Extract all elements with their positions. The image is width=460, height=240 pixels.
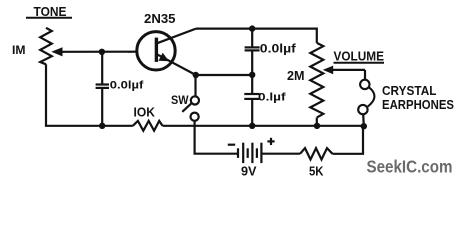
wire pot bottom to rail bbox=[46, 64, 133, 126]
wire C2 bottom lead bbox=[251, 99, 253, 126]
wire battery to 5K bbox=[261, 153, 300, 155]
svg-text:IM: IM bbox=[12, 45, 26, 57]
wire emitter to switch bbox=[194, 75, 196, 97]
wiper arrow R1 bbox=[51, 47, 137, 56]
switch SW top contact bbox=[191, 96, 199, 104]
transistor Q1 emitter lead bbox=[157, 53, 196, 75]
svg-text:0.lµf: 0.lµf bbox=[258, 91, 286, 103]
wiper arrow R3 bbox=[323, 66, 365, 75]
transistor Q1 collector lead bbox=[157, 29, 196, 44]
battery B1 9V minus sign bbox=[228, 144, 235, 146]
node rail C2 junction bbox=[249, 123, 255, 129]
wire emitter row bbox=[196, 74, 252, 76]
wire 2M bottom lead bbox=[316, 118, 318, 126]
capacitor C3 0.01uf bbox=[245, 47, 260, 50]
wire switch to battery bbox=[195, 121, 238, 154]
wire C3 bottom lead bbox=[251, 50, 253, 74]
svg-text:2N35: 2N35 bbox=[144, 12, 176, 26]
label TONE bbox=[26, 5, 72, 19]
transistor Q1 2N35 circle bbox=[137, 32, 175, 70]
wire earphone bottom lead bbox=[362, 114, 365, 126]
node rail C1 junction bbox=[99, 123, 105, 129]
wire C1 top lead bbox=[101, 52, 103, 84]
wire bottom rail bbox=[163, 125, 365, 127]
wire 5K to rail bbox=[333, 126, 364, 154]
capacitor C2 0.1uf bbox=[244, 94, 259, 99]
transistor Q1 base bar bbox=[155, 38, 158, 62]
node base junction bbox=[99, 49, 105, 55]
svg-text:EARPHONES: EARPHONES bbox=[382, 98, 454, 112]
wire C2 top lead bbox=[251, 75, 253, 93]
svg-text:2M: 2M bbox=[287, 68, 305, 83]
wire C1 bottom lead bbox=[101, 88, 103, 126]
earphone bottom terminal bbox=[358, 105, 367, 114]
potentiometer R1 1M (TONE) bbox=[40, 28, 52, 65]
svg-text:VOLUME: VOLUME bbox=[334, 50, 385, 64]
node top rail junction bbox=[249, 25, 255, 31]
node C3-C2 junction bbox=[249, 72, 255, 78]
node emitter junction bbox=[193, 72, 199, 78]
earphone top terminal bbox=[360, 80, 369, 89]
node rail 2M junction bbox=[314, 123, 320, 129]
wire wiper to earphone bbox=[364, 70, 366, 80]
svg-text:SeekIC.com: SeekIC.com bbox=[367, 157, 453, 177]
earphone cord arc bbox=[368, 87, 375, 106]
resistor R2 10K bbox=[133, 121, 163, 131]
resistor R4 5K bbox=[300, 148, 333, 159]
svg-text:IOK: IOK bbox=[134, 105, 156, 120]
battery B1 9V plus sign bbox=[267, 138, 274, 145]
capacitor C1 0.01uf bbox=[96, 85, 109, 88]
switch SW bottom contact bbox=[191, 113, 199, 121]
wire top rail bbox=[196, 28, 317, 30]
wire top rail corner to 2M bbox=[316, 28, 318, 43]
label VOLUME bbox=[334, 50, 385, 64]
svg-text:0.0lµf: 0.0lµf bbox=[110, 80, 144, 92]
svg-text:9V: 9V bbox=[241, 163, 257, 178]
wire C3 top lead bbox=[251, 29, 253, 47]
node rail earphone junction bbox=[361, 123, 367, 129]
switch SW lever bbox=[182, 104, 191, 112]
svg-text:0.0lµf: 0.0lµf bbox=[260, 44, 296, 56]
battery B1 plates bbox=[238, 143, 261, 163]
svg-text:5K: 5K bbox=[309, 163, 324, 178]
svg-text:CRYSTAL: CRYSTAL bbox=[382, 84, 437, 98]
svg-text:SW: SW bbox=[171, 93, 189, 107]
potentiometer R3 2M bbox=[310, 43, 323, 118]
